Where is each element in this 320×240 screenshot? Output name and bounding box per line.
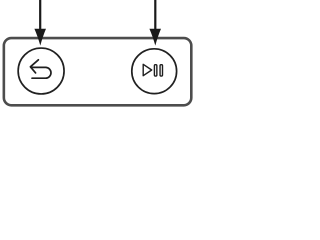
arrow (right, pointing down at play/pause button) bbox=[149, 0, 161, 46]
panel (rounded rectangle) bbox=[4, 38, 191, 105]
back/undo icon bbox=[30, 60, 51, 78]
arrow (left, pointing down at back button) bbox=[34, 0, 46, 46]
play/pause icon bbox=[143, 64, 162, 76]
play/pause button circle bbox=[132, 49, 177, 94]
back button circle bbox=[18, 48, 64, 94]
